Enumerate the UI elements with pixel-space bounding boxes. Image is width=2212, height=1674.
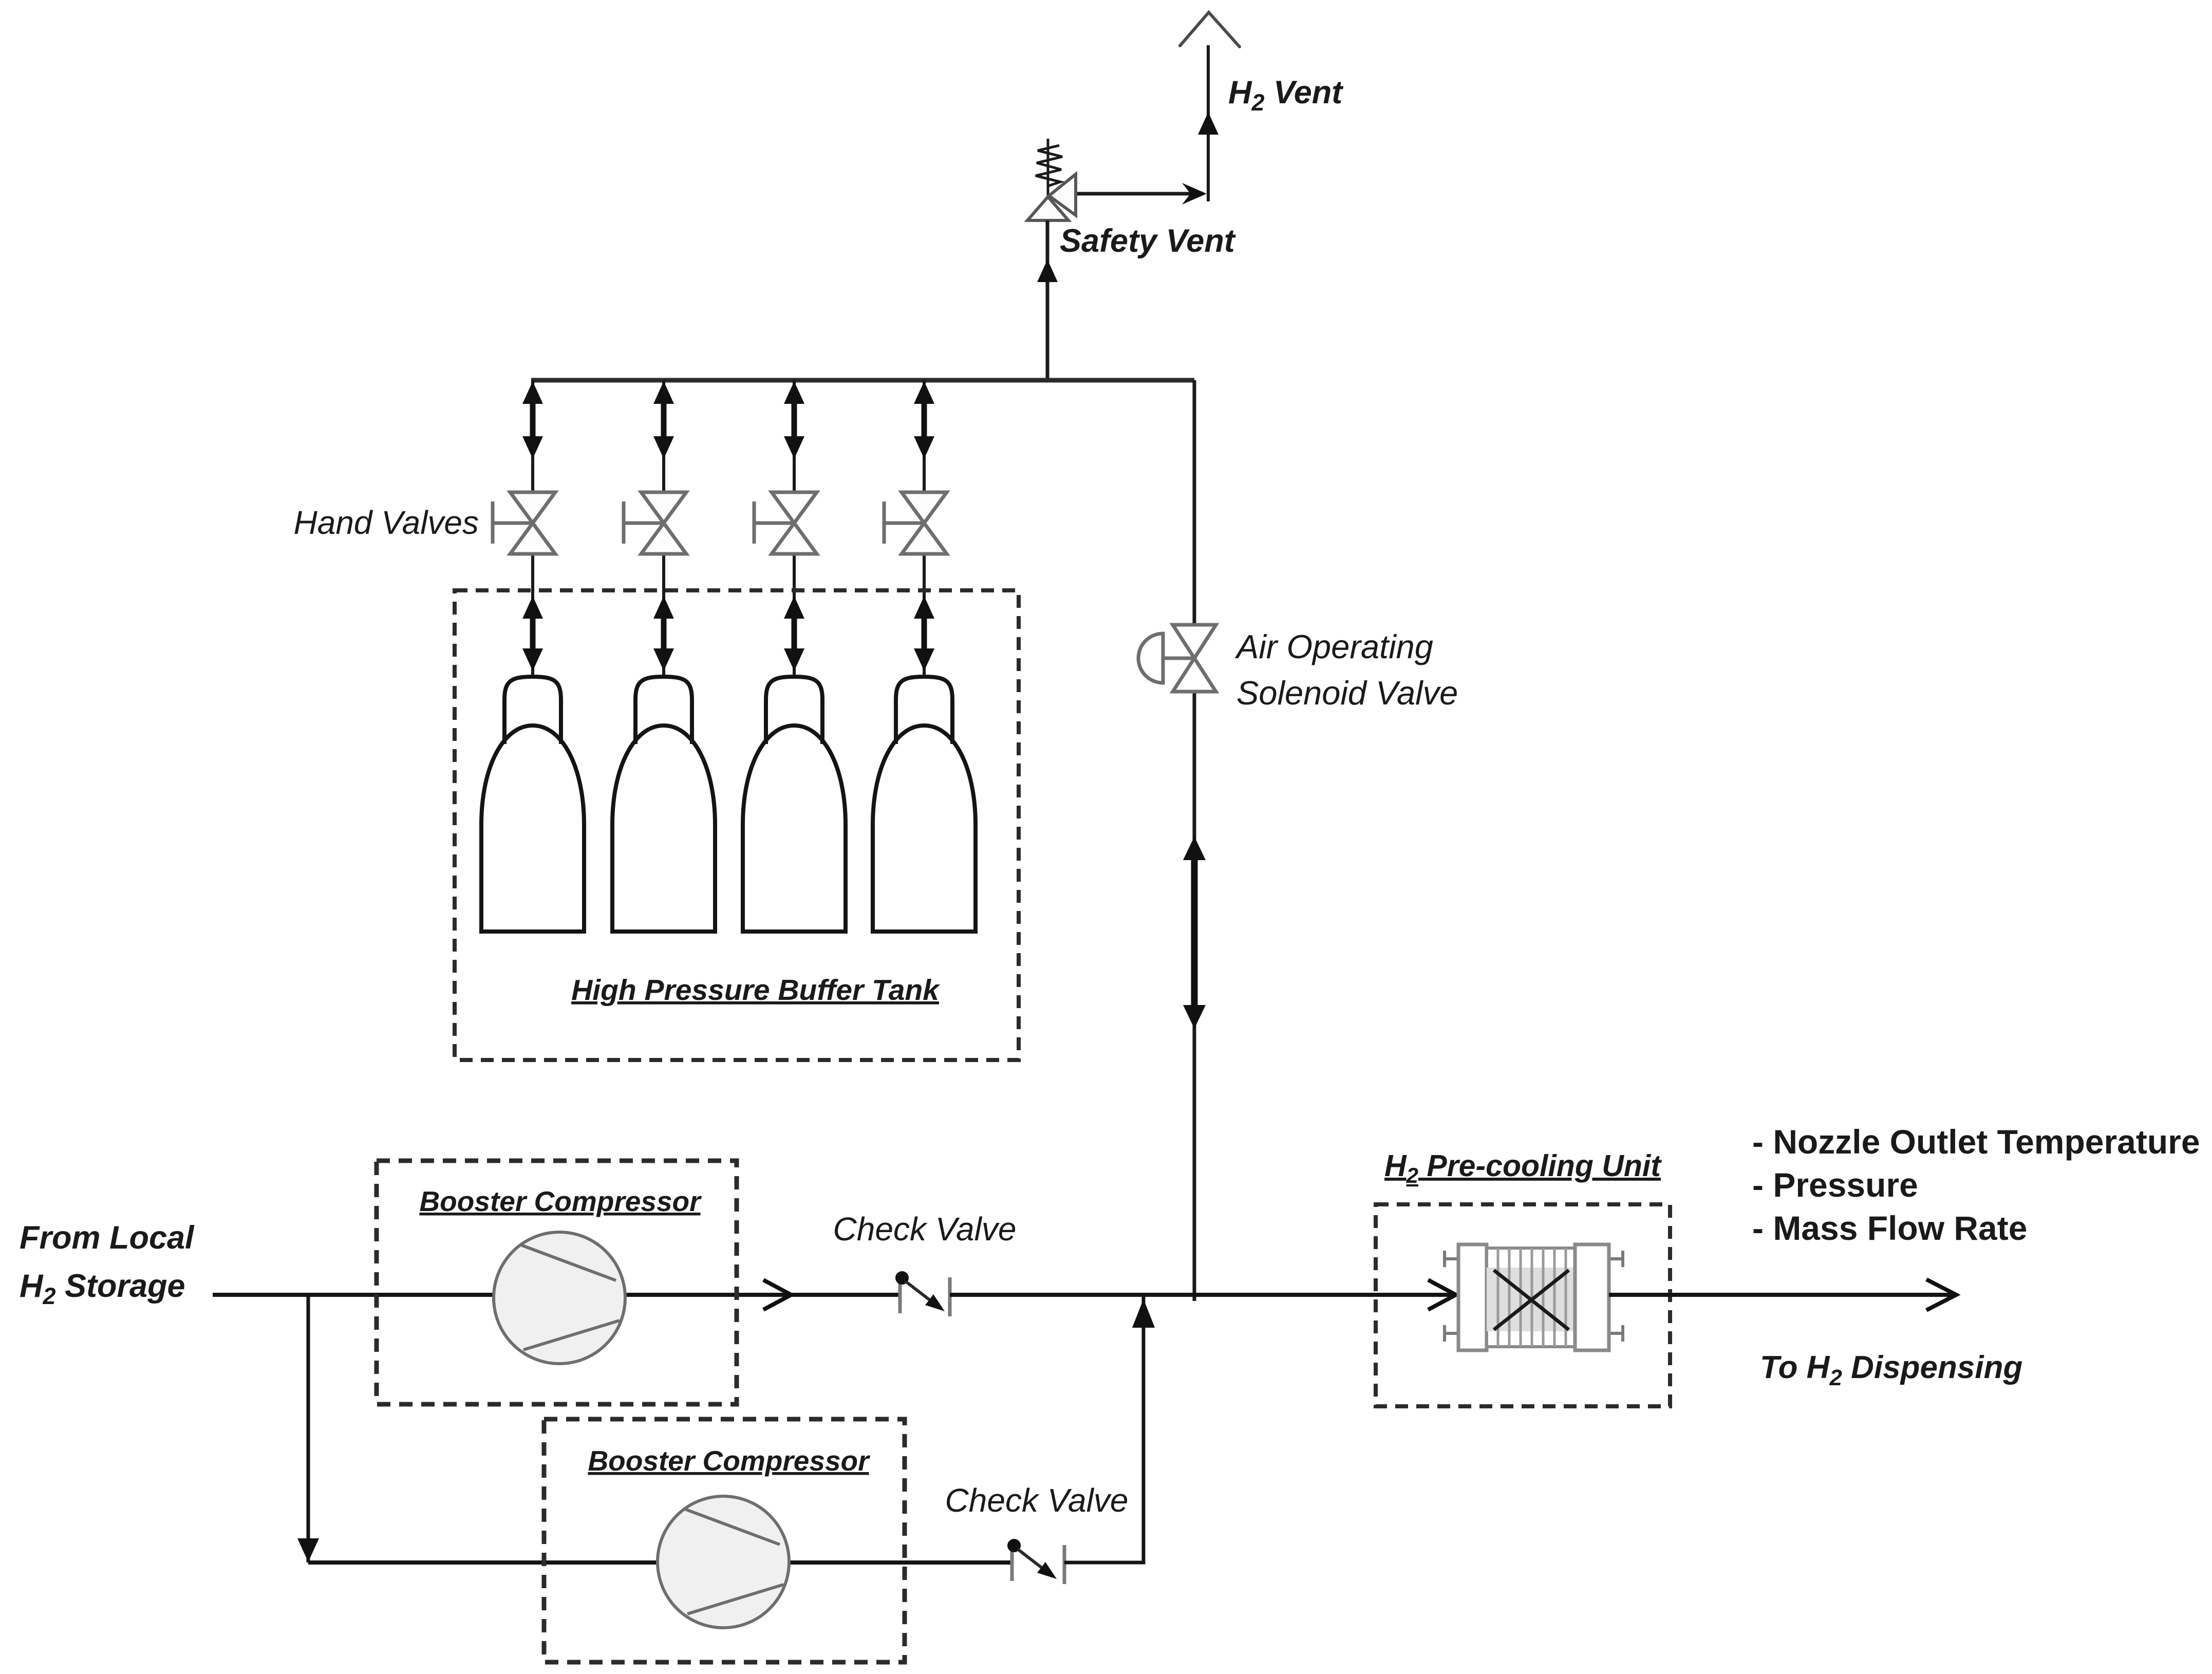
- svg-text:High Pressure Buffer Tank: High Pressure Buffer Tank: [571, 974, 941, 1007]
- wire: lower branch line: [308, 1560, 1011, 1565]
- wire: outlet line to dispensing: [1609, 1293, 1952, 1297]
- wire: buffer tank header manifold: [531, 378, 1194, 383]
- svg-text:H2 Vent: H2 Vent: [1228, 75, 1344, 116]
- hand valve 1: [510, 492, 555, 523]
- bidirectional flow arrows on riser: [1191, 853, 1198, 1015]
- wire: buffer tank drop line 2: [662, 380, 665, 678]
- svg-text:To H2 Dispensing: To H2 Dispensing: [1760, 1350, 2022, 1390]
- air operating solenoid valve body: [1173, 625, 1216, 658]
- dashed enclosure: booster compressor 1: [377, 1161, 737, 1404]
- safety relief valve body (angle valve): [1027, 197, 1068, 220]
- compressor 1 symbol: [494, 1232, 625, 1364]
- wire: buffer tank drop line 3: [793, 380, 796, 678]
- flow arrow after booster compressor 1: [763, 1280, 791, 1310]
- svg-text:- Nozzle Outlet Temperature: - Nozzle Outlet Temperature: [1752, 1123, 2200, 1161]
- svg-text:Hand Valves: Hand Valves: [294, 504, 479, 541]
- flow arrow to H2 dispensing: [1926, 1279, 1956, 1310]
- svg-text:- Mass Flow Rate: - Mass Flow Rate: [1752, 1209, 2027, 1247]
- svg-text:Booster Compressor: Booster Compressor: [588, 1445, 870, 1477]
- hand valve 2: [641, 492, 686, 523]
- heat exchanger cross: [1494, 1270, 1569, 1330]
- dashed enclosure: H2 pre-cooling unit: [1376, 1204, 1670, 1406]
- bidirectional flow arrows upper drop 2: [661, 393, 667, 446]
- svg-text:Air Operating: Air Operating: [1234, 628, 1433, 665]
- bidirectional flow arrows upper drop 1: [530, 393, 536, 446]
- wire: H2 vent riser: [1207, 45, 1210, 201]
- flow arrow into pre-cooling unit: [1428, 1280, 1456, 1310]
- wire: main riser header to process line: [1193, 380, 1196, 1301]
- flow arrow down on branch: [297, 1538, 319, 1562]
- bidirectional flow arrows lower drop 1: [530, 609, 536, 657]
- flow arrow up on vent riser: [1198, 112, 1219, 135]
- bidirectional flow arrows upper drop 4: [922, 393, 927, 446]
- check valve 1: [898, 1284, 902, 1313]
- wire: branch down from storage line: [307, 1295, 310, 1563]
- svg-text:- Pressure: - Pressure: [1752, 1166, 1918, 1204]
- vent outlet chevron: [1180, 12, 1240, 47]
- gas cylinder 2: [612, 726, 715, 932]
- bidirectional flow arrows lower drop 3: [792, 609, 797, 657]
- solenoid valve air actuator: [1138, 634, 1163, 683]
- svg-text:From Local: From Local: [20, 1220, 195, 1256]
- wire: buffer tank drop line 4: [923, 380, 926, 678]
- hand valve 4: [902, 492, 947, 523]
- bidirectional flow arrows lower drop 4: [922, 609, 927, 657]
- heat exchanger left cap: [1458, 1244, 1487, 1350]
- gas cylinder 1: [481, 726, 584, 932]
- hand valve 3: [772, 492, 817, 523]
- bidirectional flow arrows lower drop 2: [661, 609, 667, 657]
- heat exchanger corner ticks: [1445, 1251, 1458, 1342]
- heat exchanger right cap: [1575, 1244, 1609, 1350]
- bidirectional flow arrows upper drop 3: [792, 393, 797, 446]
- wire: main process line check valve to pre-cooler: [950, 1293, 1458, 1297]
- wire: safety vent drop to header: [1046, 220, 1049, 380]
- safety relief valve spring: [1036, 145, 1062, 186]
- flow arrow up to safety vent: [1037, 259, 1058, 282]
- svg-text:Safety Vent: Safety Vent: [1060, 223, 1236, 259]
- svg-text:Booster Compressor: Booster Compressor: [419, 1185, 702, 1217]
- wire: lower branch to riser: [1064, 1297, 1144, 1563]
- flow arrow up into main line: [1132, 1299, 1155, 1328]
- flow arrow right into vent riser: [1182, 183, 1207, 204]
- heat exchanger plate core: [1487, 1248, 1575, 1347]
- svg-text:Solenoid Valve: Solenoid Valve: [1236, 674, 1458, 712]
- dashed enclosure: booster compressor 2: [544, 1419, 905, 1662]
- compressor 2 symbol: [658, 1496, 789, 1628]
- svg-text:Check Valve: Check Valve: [833, 1211, 1017, 1248]
- wire: main process line from storage: [213, 1293, 899, 1297]
- wire: safety vent outlet horizontal: [1075, 192, 1203, 196]
- check valve 2: [1010, 1551, 1014, 1581]
- dashed enclosure: high pressure buffer tank: [455, 590, 1019, 1060]
- gas cylinder 4: [873, 726, 976, 932]
- svg-text:H2 Pre-cooling Unit: H2 Pre-cooling Unit: [1384, 1149, 1662, 1187]
- svg-text:Check Valve: Check Valve: [945, 1482, 1129, 1519]
- wire: buffer tank drop line 1: [531, 380, 534, 678]
- gas cylinder 3: [743, 726, 846, 932]
